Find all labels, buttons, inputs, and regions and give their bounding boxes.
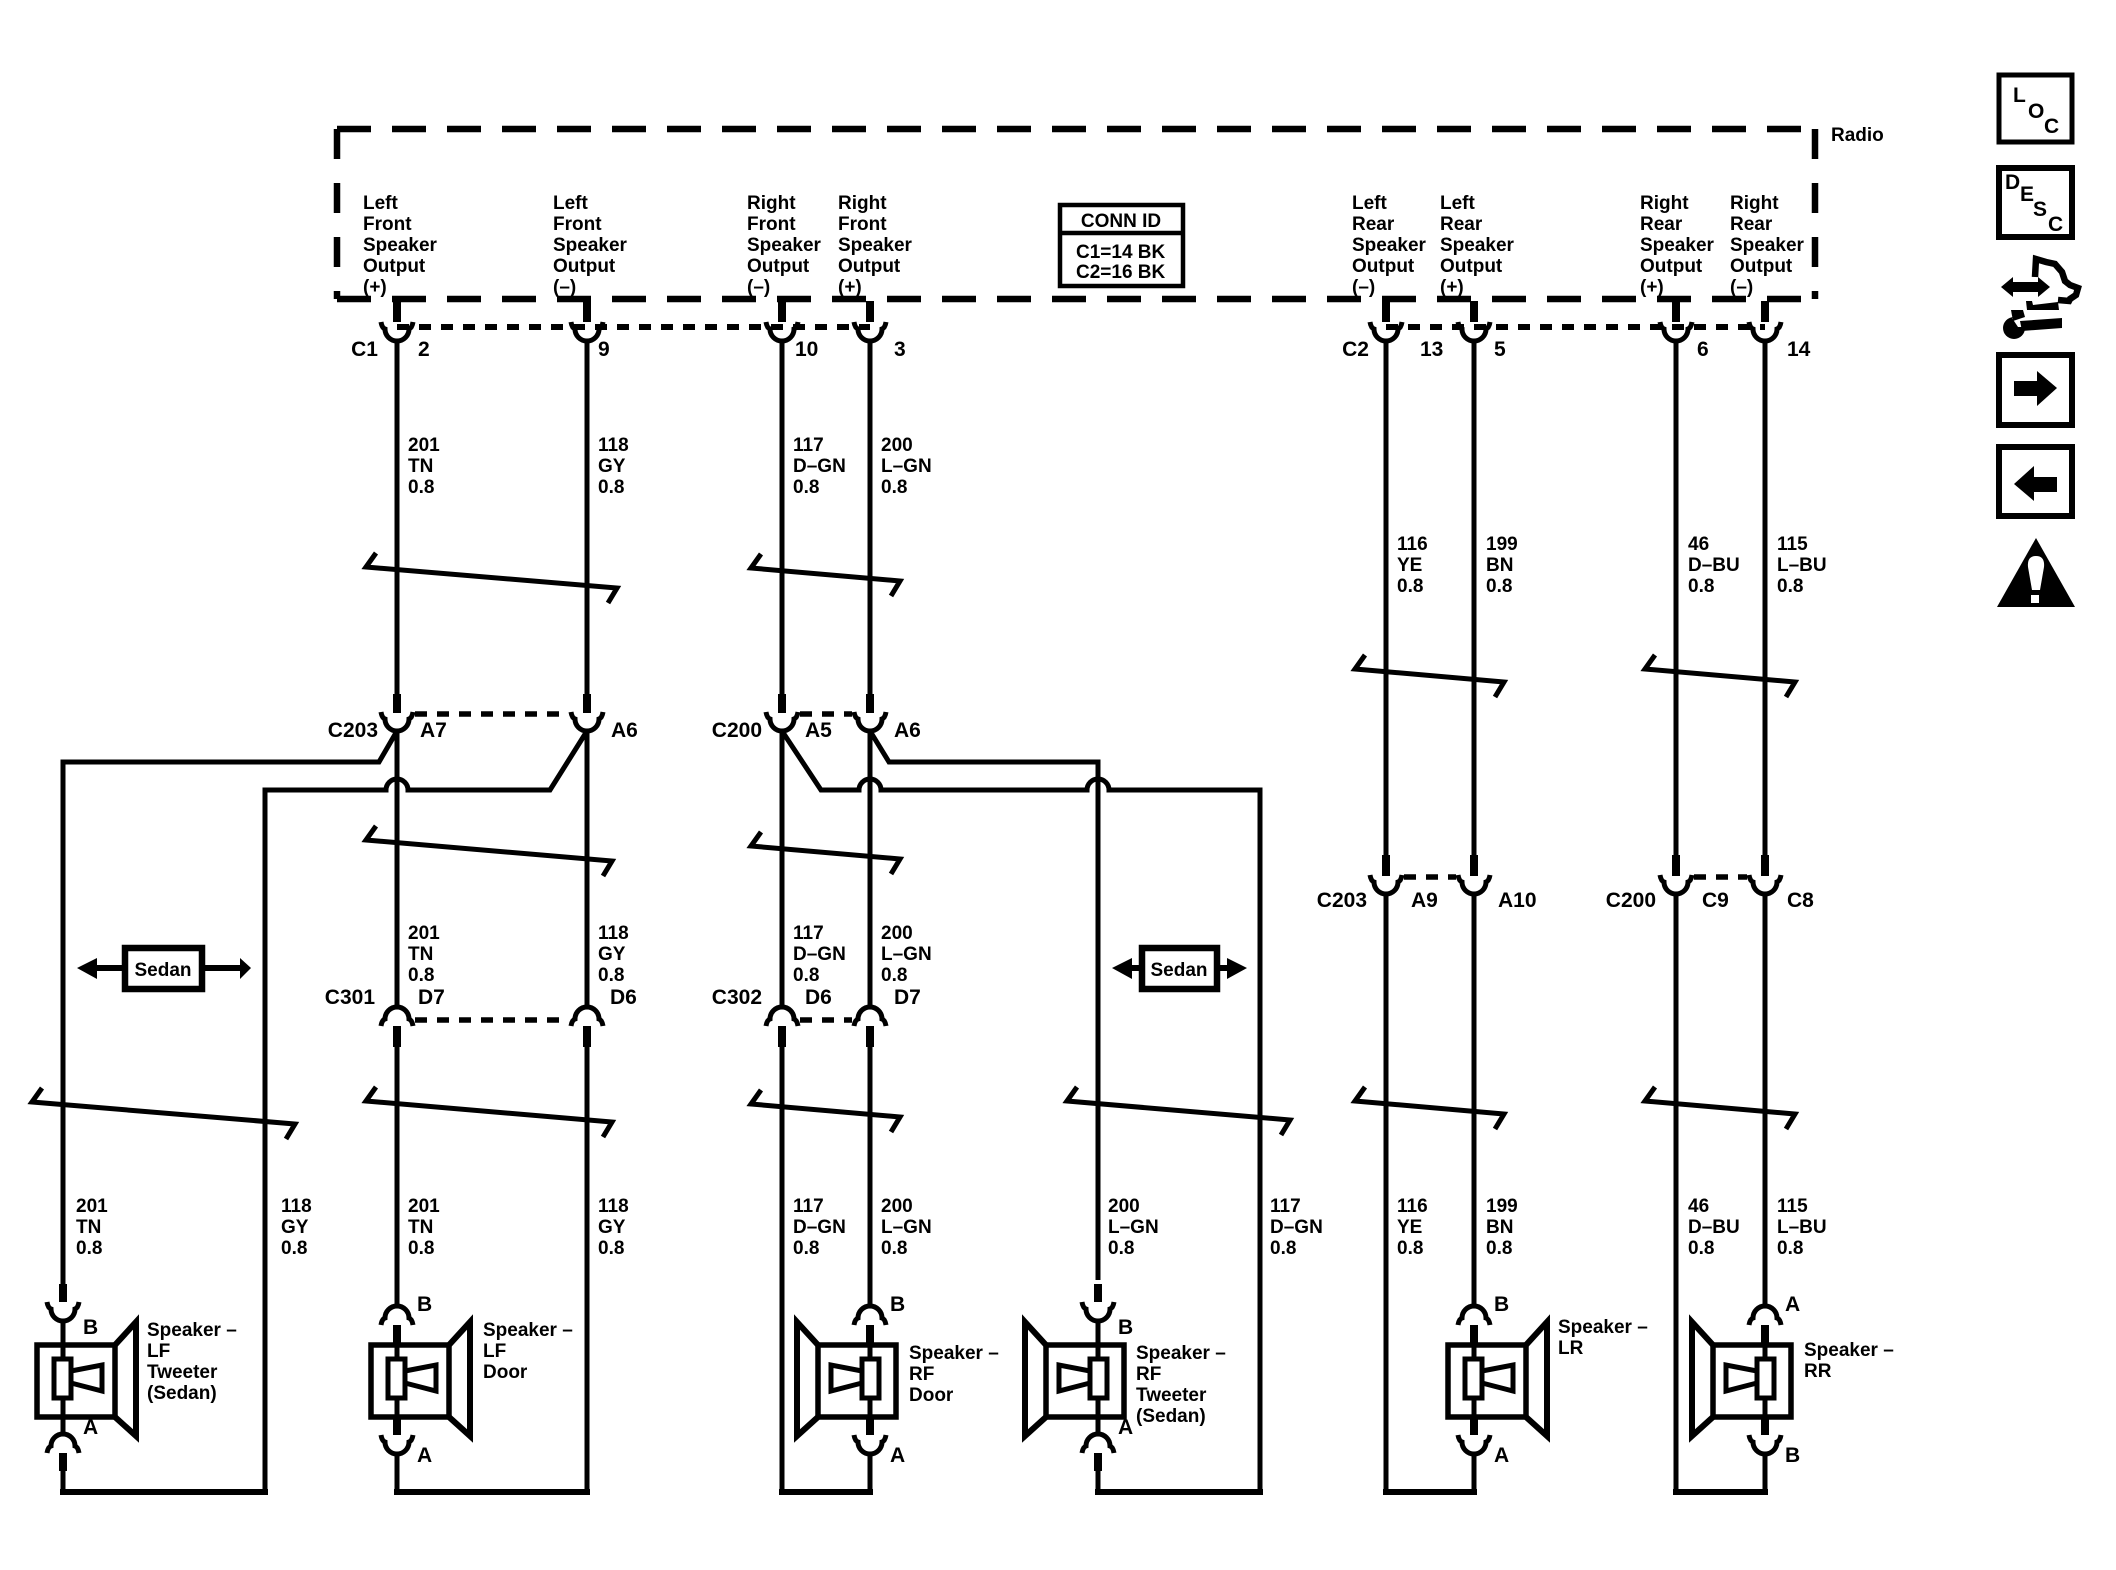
pin 10 of radio connector [766,301,818,361]
label: Speaker - LF Door [483,1320,573,1383]
connector C2 dotted line [1386,324,1765,330]
wire 46 D-BU (C200-C9 to bottom link) [1674,894,1679,1492]
svg-text:200: 200 [881,1196,913,1217]
svg-text:(–): (–) [553,277,576,298]
svg-text:L–BU: L–BU [1777,1217,1827,1238]
svg-text:117: 117 [793,923,824,944]
svg-text:0.8: 0.8 [76,1238,102,1259]
svg-text:D–BU: D–BU [1688,555,1740,576]
svg-text:A: A [83,1416,98,1439]
svg-text:Speaker: Speaker [838,235,913,256]
svg-text:200: 200 [1108,1196,1140,1217]
svg-text:D–GN: D–GN [1270,1217,1323,1238]
svg-text:6: 6 [1697,338,1709,361]
svg-text:LR: LR [1558,1338,1584,1359]
svg-text:9: 9 [598,338,610,361]
wire label 200 L-GN (RF tweeter B) bottom [1108,1196,1159,1259]
wire label 118 GY 0.8 (middle) [598,923,629,986]
svg-text:Speaker: Speaker [1352,235,1427,256]
wire label 200 L-GN 0.8 (middle) [881,923,932,986]
svg-text:14: 14 [1787,338,1811,361]
wire label 200 L-GN (RF door B) bottom [881,1196,932,1259]
svg-text:0.8: 0.8 [408,965,434,986]
icon LOC box [1999,75,2072,142]
svg-text:Output: Output [1640,256,1703,277]
svg-text:116: 116 [1397,1196,1428,1217]
wire crossing mark (tweeter branch 200/117) [1067,1087,1290,1135]
svg-text:C8: C8 [1787,889,1814,912]
svg-text:YE: YE [1397,555,1422,576]
svg-text:(–): (–) [1352,277,1375,298]
svg-text:0.8: 0.8 [793,1238,819,1259]
svg-text:Output: Output [1440,256,1503,277]
speaker Speaker - LF Tweeter (Sedan) [37,1322,136,1436]
svg-text:Radio: Radio [1831,125,1884,146]
svg-text:0.8: 0.8 [1108,1238,1134,1259]
wire label 199 BN (LR B) bottom [1486,1196,1518,1259]
radio output label: Right Rear Speaker Output (+) [1640,193,1715,298]
svg-text:A6: A6 [894,719,921,742]
icon arrow left box [1999,447,2072,516]
pin 3 of radio connector [854,301,906,361]
pin B of Speaker - LF Door [381,1293,432,1346]
svg-text:RF: RF [909,1364,934,1385]
svg-text:C302: C302 [712,986,762,1009]
wire 117 D-GN branch (C200-A5 to RF tweeter A) [782,731,1260,1492]
pin B of Speaker - RF Door [854,1293,905,1346]
speaker Speaker - RF Door [797,1322,896,1436]
label: Speaker - RR [1804,1340,1894,1382]
svg-text:46: 46 [1688,534,1709,555]
wire 118 GY branch (C203-A6 to LF tweeter A) [265,731,587,1492]
svg-text:200: 200 [881,435,913,456]
svg-text:Sedan: Sedan [134,960,191,981]
wire bottom link (117/200 RF door) [779,1489,873,1495]
svg-text:Front: Front [363,214,412,235]
svg-text:S: S [2033,198,2047,221]
svg-text:D7: D7 [418,986,445,1009]
icon adjust/service (arrows and wrench) [2001,259,2078,339]
pin B of Speaker - LR [1458,1293,1509,1346]
svg-text:L–BU: L–BU [1777,555,1827,576]
svg-text:D6: D6 [805,986,832,1009]
svg-text:Speaker: Speaker [747,235,822,256]
svg-text:2: 2 [418,338,430,361]
connector C200 (in-line, pins A5/A6) [712,694,921,742]
svg-text:0.8: 0.8 [1777,1238,1803,1259]
wire 201 TN branch (C203-A7 to LF tweeter B) [63,731,397,1284]
wire label 199 BN 0.8 (top) [1486,534,1518,597]
callout Sedan (left) [77,948,251,989]
svg-text:0.8: 0.8 [1688,1238,1714,1259]
connector C200 (rear, pins C9/C8) [1606,855,1814,912]
svg-text:L: L [2013,84,2026,107]
svg-text:L–GN: L–GN [1108,1217,1159,1238]
svg-text:Output: Output [838,256,901,277]
svg-text:A7: A7 [420,719,447,742]
wire 115 L-BU (C200-C8 to RR speaker A) [1763,894,1768,1306]
svg-text:B: B [417,1293,432,1316]
svg-text:Right: Right [1640,193,1689,214]
svg-text:199: 199 [1486,1196,1518,1217]
svg-text:118: 118 [598,435,629,456]
connector C301 (in-line, pins D7/D6) [325,986,637,1047]
svg-text:GY: GY [281,1217,309,1238]
wire label 201 TN (door B) bottom [408,1196,440,1259]
svg-text:C203: C203 [328,719,378,742]
svg-text:C203: C203 [1317,889,1367,912]
svg-text:TN: TN [76,1217,101,1238]
svg-text:0.8: 0.8 [881,965,907,986]
pin B of Speaker - LF Tweeter (Sedan) [47,1284,98,1345]
label: Speaker - LR [1558,1317,1648,1359]
svg-text:A9: A9 [1411,889,1438,912]
wire 200 L-GN (C302-D7 to RF door B) [868,1046,873,1306]
svg-text:0.8: 0.8 [1777,576,1803,597]
pin 2 of radio connector [381,301,430,361]
svg-text:Output: Output [1352,256,1415,277]
svg-text:LF: LF [147,1341,170,1362]
svg-text:RR: RR [1804,1361,1832,1382]
pin A of Speaker - RR [1749,1293,1800,1346]
wire label 201 TN (tweeter B) bottom [76,1196,108,1259]
svg-text:0.8: 0.8 [1688,576,1714,597]
svg-text:Speaker –: Speaker – [1804,1340,1894,1361]
svg-text:Right: Right [1730,193,1779,214]
svg-text:Door: Door [909,1385,954,1406]
svg-text:TN: TN [408,456,433,477]
svg-text:Front: Front [553,214,602,235]
svg-text:(+): (+) [1640,277,1664,298]
wire 116 YE (C203-A9 to bottom link) [1384,894,1389,1492]
svg-text:0.8: 0.8 [1486,1238,1512,1259]
svg-text:Front: Front [838,214,887,235]
wire label 118 GY (tweeter A) bottom [281,1196,312,1259]
wire label 116 YE 0.8 (top) [1397,534,1428,597]
label: Speaker - LF Tweeter (Sedan) [147,1320,237,1404]
svg-text:B: B [83,1316,98,1339]
callout Sedan (right) [1112,948,1247,989]
svg-text:115: 115 [1777,1196,1808,1217]
svg-text:Rear: Rear [1440,214,1483,235]
svg-text:YE: YE [1397,1217,1422,1238]
speaker Speaker - LF Door [371,1322,470,1436]
svg-text:201: 201 [408,1196,440,1217]
svg-text:0.8: 0.8 [281,1238,307,1259]
wire 200 L-GN branch (C200-A6 to RF tweeter B) [870,731,1098,1280]
svg-text:0.8: 0.8 [1397,1238,1423,1259]
svg-text:0.8: 0.8 [1270,1238,1296,1259]
svg-text:D–GN: D–GN [793,1217,846,1238]
wire crossing mark (117/200 lower) [751,1090,900,1132]
svg-text:A: A [890,1444,905,1467]
wire 116 YE (C2-13 to C203-A9) [1384,340,1389,855]
svg-text:(+): (+) [838,277,862,298]
svg-text:A: A [1494,1444,1509,1467]
svg-text:Tweeter: Tweeter [147,1362,218,1383]
wire bottom link (201/118 LF door) [394,1489,590,1495]
svg-text:GY: GY [598,1217,626,1238]
svg-text:D–GN: D–GN [793,944,846,965]
svg-text:0.8: 0.8 [408,1238,434,1259]
svg-text:C1=14 BK: C1=14 BK [1076,242,1166,263]
svg-text:Speaker: Speaker [363,235,438,256]
wire label 201 TN 0.8 (top) [408,435,440,498]
svg-text:A: A [417,1444,432,1467]
svg-text:0.8: 0.8 [1486,576,1512,597]
svg-text:Door: Door [483,1362,528,1383]
pin A of Speaker - LF Door [381,1417,432,1492]
connector C203 (rear, pins A9/A10) [1317,855,1537,912]
svg-text:Output: Output [553,256,616,277]
svg-text:C2=16 BK: C2=16 BK [1076,262,1166,283]
wire 118 GY (C1-9 to C203-A6) [585,340,590,696]
svg-text:L–GN: L–GN [881,1217,932,1238]
svg-text:Rear: Rear [1730,214,1773,235]
wire crossing mark (116/199 upper) [1355,655,1504,697]
svg-text:A: A [1785,1293,1800,1316]
svg-text:B: B [890,1293,905,1316]
svg-text:Front: Front [747,214,796,235]
wire 117 D-GN (C1-10 to C200-A5) [780,340,785,696]
wire bottom link (46/115 RR) [1673,1489,1768,1495]
wire crossing mark (201/118 middle) [366,826,612,876]
label: Speaker - RF Door [909,1343,999,1406]
svg-text:Right: Right [838,193,887,214]
svg-text:C1: C1 [351,338,378,361]
svg-text:200: 200 [881,923,913,944]
svg-text:D7: D7 [894,986,921,1009]
svg-text:(Sedan): (Sedan) [1136,1406,1206,1427]
svg-text:117: 117 [793,435,824,456]
wire label 118 GY (door A) bottom [598,1196,629,1259]
svg-text:Rear: Rear [1640,214,1683,235]
pin 14 of radio connector [1749,301,1811,361]
svg-text:GY: GY [598,456,626,477]
wire 115 L-BU (C2-14 to C200-C8) [1763,340,1768,855]
CONN ID table [1060,205,1183,286]
wire 201 TN (C1-2 to C203-A7) [395,340,400,696]
svg-text:Speaker –: Speaker – [909,1343,999,1364]
svg-text:0.8: 0.8 [793,965,819,986]
svg-text:(Sedan): (Sedan) [147,1383,217,1404]
pin 5 of radio connector [1458,301,1506,361]
svg-text:C: C [2044,115,2059,138]
svg-text:(+): (+) [363,277,387,298]
svg-text:0.8: 0.8 [598,965,624,986]
wire 199 BN (C203-A10 to LR speaker B) [1472,894,1477,1306]
svg-text:A10: A10 [1498,889,1537,912]
svg-text:D6: D6 [610,986,637,1009]
svg-text:D: D [2005,171,2020,194]
svg-text:BN: BN [1486,555,1513,576]
svg-text:Left: Left [1440,193,1476,214]
svg-text:118: 118 [598,1196,629,1217]
svg-text:0.8: 0.8 [881,1238,907,1259]
icon warning triangle [1997,538,2075,607]
pin A of Speaker - LR [1458,1417,1509,1492]
label: Speaker - RF Tweeter (Sedan) [1136,1343,1226,1427]
svg-text:0.8: 0.8 [1397,576,1423,597]
radio output label: Left Front Speaker Output (+) [363,193,438,298]
speaker Speaker - RF Tweeter (Sedan) [1025,1322,1124,1436]
svg-text:0.8: 0.8 [408,477,434,498]
svg-text:E: E [2020,183,2034,206]
svg-text:Output: Output [1730,256,1793,277]
pin B of Speaker - RR [1749,1417,1800,1492]
radio output label: Right Front Speaker Output (-) [747,193,822,298]
radio output label: Right Rear Speaker Output (-) [1730,193,1805,298]
connector C302 (in-line, pins D6/D7) [712,986,921,1047]
wire 117 D-GN (C200-A5 to C302-D6) [780,731,785,1006]
svg-text:Speaker: Speaker [1440,235,1515,256]
pin B of Speaker - RF Tweeter (Sedan) [1082,1284,1133,1345]
pin A of Speaker - RF Tweeter (Sedan) [1082,1416,1133,1492]
wire 199 BN (C2-5 to C203-A10) [1472,340,1477,855]
svg-text:Output: Output [363,256,426,277]
svg-text:B: B [1118,1316,1133,1339]
wire 201 TN (C301-D7 to LF door B) [395,1046,400,1306]
wire crossing mark (46/115 lower) [1645,1087,1795,1129]
wire label 116 YE (LR A) bottom [1397,1196,1428,1259]
svg-text:0.8: 0.8 [598,477,624,498]
svg-text:TN: TN [408,944,433,965]
svg-text:A: A [1118,1416,1133,1439]
pin 9 of radio connector [571,301,610,361]
svg-text:13: 13 [1420,338,1443,361]
speaker Speaker - RR [1692,1322,1791,1436]
svg-text:0.8: 0.8 [793,477,819,498]
wire crossing mark (46/115 upper) [1645,655,1795,697]
wire 117 D-GN (C302-D6 to bottom link) [780,1046,785,1492]
icon arrow right box [1999,355,2072,425]
wire crossing mark (117/200 middle) [751,832,900,874]
svg-text:BN: BN [1486,1217,1513,1238]
svg-text:C200: C200 [1606,889,1656,912]
svg-text:RF: RF [1136,1364,1161,1385]
svg-text:116: 116 [1397,534,1428,555]
wire label 117 D-GN (RF tweeter A) bottom [1270,1196,1323,1259]
svg-text:Output: Output [747,256,810,277]
wire 46 D-BU (C2-6 to C200-C9) [1674,340,1679,855]
svg-text:(–): (–) [1730,277,1753,298]
wire 200 L-GN (C1-3 to C200-A6) [868,340,873,696]
svg-text:(–): (–) [747,277,770,298]
svg-text:A5: A5 [805,719,832,742]
wire label 115 L-BU 0.8 (top) [1777,534,1827,597]
svg-text:Left: Left [1352,193,1388,214]
svg-text:201: 201 [408,435,440,456]
svg-text:5: 5 [1494,338,1506,361]
label Radio [1831,125,1884,146]
svg-text:199: 199 [1486,534,1518,555]
svg-text:Tweeter: Tweeter [1136,1385,1207,1406]
svg-text:201: 201 [408,923,440,944]
radio output label: Left Front Speaker Output (-) [553,193,628,298]
svg-text:LF: LF [483,1341,506,1362]
label C1 (radio connector C1) [351,338,378,361]
svg-text:L–GN: L–GN [881,944,932,965]
radio output label: Right Front Speaker Output (+) [838,193,913,298]
svg-text:0.8: 0.8 [598,1238,624,1259]
pin A of Speaker - RF Door [854,1417,905,1492]
wire bottom link (200/117 RF tweeter) [1095,1489,1263,1495]
wire 200 L-GN (C200-A6 to C302-D7) [868,731,873,1006]
wire label 115 L-BU (RR A) bottom [1777,1196,1827,1259]
svg-text:B: B [1785,1444,1800,1467]
svg-text:10: 10 [795,338,818,361]
svg-text:3: 3 [894,338,906,361]
wire crossing mark (201/118 upper) [366,553,617,603]
wire label 200 L-GN 0.8 (top) [881,435,932,498]
pin A of Speaker - LF Tweeter (Sedan) [47,1416,98,1492]
svg-text:Speaker –: Speaker – [147,1320,237,1341]
svg-text:B: B [1494,1293,1509,1316]
wire label 201 TN 0.8 (middle) [408,923,440,986]
svg-text:Left: Left [553,193,589,214]
pin 13 of radio connector [1370,301,1443,361]
svg-text:Speaker: Speaker [1730,235,1805,256]
wire crossing mark (117/200 upper) [751,554,900,596]
svg-text:115: 115 [1777,534,1808,555]
svg-text:Speaker –: Speaker – [1558,1317,1648,1338]
svg-text:C2: C2 [1342,338,1369,361]
svg-text:TN: TN [408,1217,433,1238]
svg-text:D–GN: D–GN [793,456,846,477]
wire crossing mark (201/118 lower) [366,1087,612,1137]
icon DESC box [1999,168,2072,237]
wire bottom link (201/118 LF tweeter) [60,1489,268,1495]
wire 201 TN (C203-A7 to C301-D7) [395,731,400,1006]
wire crossing mark (116/199 lower) [1355,1087,1504,1129]
speaker Speaker - LR [1448,1322,1547,1436]
radio output label: Left Rear Speaker Output (-) [1352,193,1427,298]
svg-text:118: 118 [598,923,629,944]
svg-text:118: 118 [281,1196,312,1217]
svg-text:117: 117 [793,1196,824,1217]
svg-text:Sedan: Sedan [1150,960,1207,981]
svg-text:Rear: Rear [1352,214,1395,235]
label C2 (radio connector C2) [1342,338,1369,361]
wire 118 GY (C301-D6 to bottom link) [585,1046,590,1492]
wire label 118 GY 0.8 (top) [598,435,629,498]
svg-text:D–BU: D–BU [1688,1217,1740,1238]
wire label 117 D-GN 0.8 (top) [793,435,846,498]
svg-text:46: 46 [1688,1196,1709,1217]
connector C203 (in-line, pins A7/A6) [328,694,638,742]
svg-text:L–GN: L–GN [881,456,932,477]
svg-text:Right: Right [747,193,796,214]
svg-text:0.8: 0.8 [881,477,907,498]
svg-text:GY: GY [598,944,626,965]
svg-text:Speaker –: Speaker – [1136,1343,1226,1364]
svg-text:Left: Left [363,193,399,214]
pin 6 of radio connector [1660,301,1709,361]
wire crossing mark (tweeter branch 201/118) [32,1088,295,1139]
svg-text:A6: A6 [611,719,638,742]
connector C1 dotted line [397,324,870,330]
svg-text:C: C [2048,213,2063,236]
svg-text:C200: C200 [712,719,762,742]
svg-text:C301: C301 [325,986,376,1009]
svg-text:Speaker: Speaker [553,235,628,256]
wire label 117 D-GN (RF door A) bottom [793,1196,846,1259]
wire label 117 D-GN 0.8 (middle) [793,923,846,986]
svg-text:Speaker –: Speaker – [483,1320,573,1341]
wire label 46 D-BU (RR B) bottom [1688,1196,1740,1259]
radio output label: Left Rear Speaker Output (+) [1440,193,1515,298]
radio (Radio unit dashed outline) [337,129,1815,299]
